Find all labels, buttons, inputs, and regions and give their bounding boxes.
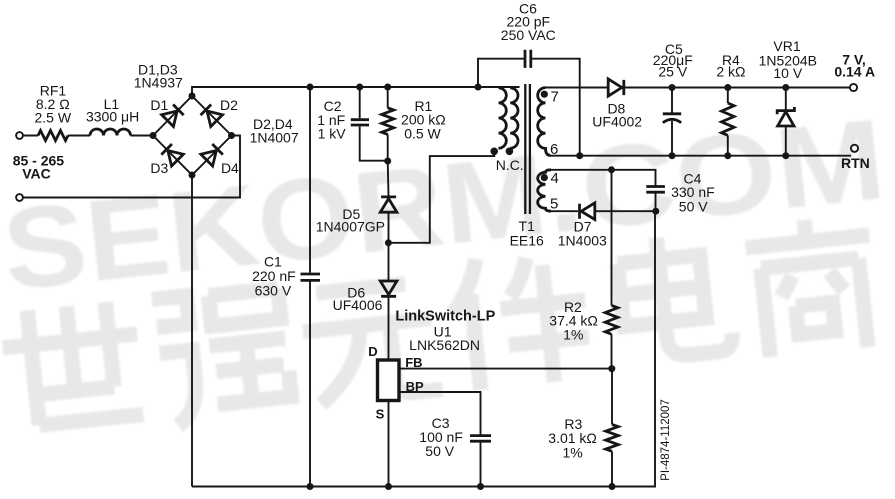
svg-text:1%: 1% bbox=[563, 327, 583, 343]
svg-text:FB: FB bbox=[405, 355, 422, 370]
diode D6 bbox=[380, 281, 397, 296]
pin 4 polarity dot bbox=[541, 174, 548, 181]
wire D6 to U1 drain bbox=[388, 297, 390, 360]
junction R1 top rail bbox=[384, 84, 391, 91]
op-amp U1 LNK562 block bbox=[378, 360, 400, 401]
wire line input bottom bbox=[23, 136, 240, 198]
svg-text:6: 6 bbox=[550, 141, 558, 158]
svg-text:3300 μH: 3300 μH bbox=[86, 108, 139, 124]
wire U1 BP bbox=[399, 392, 481, 435]
svg-text:7: 7 bbox=[551, 89, 559, 106]
node bridge right bbox=[228, 132, 235, 139]
resistor R1 bbox=[387, 87, 389, 161]
svg-text:1N4007GP: 1N4007GP bbox=[316, 219, 385, 235]
wire D5D6 node down bbox=[388, 243, 390, 280]
junction C2 top rail bbox=[356, 84, 363, 91]
capacitor C4 bbox=[646, 187, 665, 193]
svg-text:LinkSwitch-LP: LinkSwitch-LP bbox=[395, 308, 495, 324]
junction VR1 top bbox=[782, 84, 789, 91]
junction R1 C2 D5 bbox=[384, 158, 391, 165]
wire U1 source bbox=[388, 401, 390, 487]
svg-text:5: 5 bbox=[550, 196, 558, 213]
wire bottom rail bbox=[192, 211, 655, 487]
transformer primary terminal dot bbox=[490, 148, 498, 156]
resistor R4 bbox=[727, 88, 729, 156]
junction D5 D6 primary bbox=[385, 239, 392, 246]
transformer core bbox=[525, 84, 530, 214]
junction R4 bottom bbox=[724, 152, 731, 159]
wire FB node to R3 bbox=[611, 369, 613, 425]
svg-text:4: 4 bbox=[551, 170, 559, 187]
svg-text:1N4003: 1N4003 bbox=[558, 233, 607, 249]
wire clamp return to primary bbox=[388, 151, 494, 243]
wire left vertical down bbox=[191, 175, 193, 487]
junction C1 bottom rail bbox=[307, 483, 314, 490]
svg-text:50 V: 50 V bbox=[679, 198, 708, 214]
resistor R2 bbox=[605, 305, 618, 334]
svg-text:LNK562DN: LNK562DN bbox=[409, 337, 480, 353]
svg-text:1N4007: 1N4007 bbox=[250, 130, 299, 146]
svg-text:250 VAC: 250 VAC bbox=[501, 27, 556, 43]
junction R3 bottom rail bbox=[609, 483, 616, 490]
wire R3 to bottom rail bbox=[611, 451, 613, 486]
diode D4 bbox=[201, 143, 224, 166]
junction C3 bottom rail bbox=[477, 483, 484, 490]
transformer T1 secondary winding 7-6 bbox=[538, 88, 551, 156]
svg-text:D2: D2 bbox=[220, 97, 238, 113]
svg-text:D: D bbox=[368, 344, 377, 359]
input terminal top bbox=[16, 132, 23, 139]
junction U1 source rail bbox=[385, 483, 392, 490]
node FB bbox=[608, 365, 615, 372]
svg-text:630 V: 630 V bbox=[255, 282, 292, 298]
svg-text:1N4937: 1N4937 bbox=[134, 75, 183, 91]
wire U1 FB bbox=[399, 368, 612, 370]
wire pin7 to D8 bbox=[546, 87, 609, 89]
junction R4 top bbox=[724, 84, 731, 91]
svg-text:BP: BP bbox=[406, 379, 424, 394]
svg-text:S: S bbox=[376, 406, 385, 421]
wire pin5 to D7 bbox=[549, 210, 578, 212]
wire pin6 output return rail bbox=[551, 155, 852, 157]
wire R2 to FB node bbox=[611, 334, 613, 368]
wire D5 to node bbox=[388, 213, 390, 243]
svg-text:EE16: EE16 bbox=[510, 232, 544, 248]
diode D3 bbox=[161, 143, 184, 166]
svg-text:PI-4874-112007: PI-4874-112007 bbox=[660, 399, 672, 481]
svg-text:50 V: 50 V bbox=[425, 443, 454, 459]
svg-text:2.5 W: 2.5 W bbox=[35, 109, 72, 125]
svg-text:UF4002: UF4002 bbox=[592, 114, 642, 130]
wire bridge sides bbox=[153, 96, 232, 175]
svg-text:RTN: RTN bbox=[841, 155, 870, 171]
pin 7 polarity dot bbox=[541, 91, 548, 98]
resistor RF1 bbox=[38, 131, 68, 141]
capacitor C6 bbox=[478, 59, 580, 156]
svg-text:N.C.: N.C. bbox=[496, 157, 524, 173]
capacitor C1 bbox=[309, 87, 311, 487]
svg-text:25 V: 25 V bbox=[658, 64, 687, 80]
output terminal 7V bbox=[850, 84, 857, 91]
wire pin4 node to R2 bbox=[611, 170, 613, 306]
svg-text:UF4006: UF4006 bbox=[333, 297, 383, 313]
transformer T1 primary winding bbox=[499, 88, 507, 148]
capacitor C5 bbox=[671, 88, 673, 156]
node pin5 C4 bbox=[652, 208, 659, 215]
svg-text:10 V: 10 V bbox=[773, 65, 802, 81]
wire line input top bbox=[23, 135, 153, 137]
diode D1 bbox=[162, 104, 185, 127]
node bridge top bbox=[189, 93, 196, 100]
svg-text:1 kV: 1 kV bbox=[318, 126, 347, 142]
transformer T1 bias winding 4-5 bbox=[538, 170, 551, 211]
junction C1 top rail bbox=[307, 84, 314, 91]
wire D7 to C4 node bbox=[596, 210, 656, 212]
svg-text:2 kΩ: 2 kΩ bbox=[716, 64, 745, 80]
wire pin4 to C4 bbox=[548, 170, 656, 211]
svg-text:D3: D3 bbox=[150, 160, 168, 176]
node C6 secondary bbox=[576, 152, 583, 159]
diode D7 bbox=[580, 203, 595, 220]
zener VR1 bbox=[785, 88, 787, 156]
inductor L1 bbox=[90, 129, 131, 135]
WATERMARK bbox=[0, 0, 1, 1]
svg-text:1%: 1% bbox=[562, 444, 582, 460]
node bridge left bbox=[150, 132, 157, 139]
wire top rail bbox=[192, 87, 520, 96]
svg-text:VAC: VAC bbox=[22, 166, 51, 182]
resistor R3 bbox=[606, 424, 619, 451]
capacitor C2 bbox=[360, 87, 388, 161]
output terminal RTN bbox=[851, 145, 858, 152]
transformer primary N.C. terminal dot bbox=[506, 148, 514, 156]
node bridge bottom bbox=[189, 172, 196, 179]
diode D8 bbox=[608, 79, 624, 96]
capacitor C3 bbox=[470, 436, 491, 442]
svg-text:0.14 A: 0.14 A bbox=[834, 64, 875, 80]
svg-text:0.5 W: 0.5 W bbox=[404, 126, 441, 142]
diode D5 bbox=[380, 197, 397, 212]
input terminal bottom bbox=[16, 194, 23, 201]
wire D8 to output bbox=[624, 87, 850, 89]
junction C5 bottom bbox=[669, 152, 676, 159]
junction VR1 bottom bbox=[782, 152, 789, 159]
svg-text:D1: D1 bbox=[150, 97, 168, 113]
node pin4 tap bbox=[608, 166, 615, 173]
svg-text:C1: C1 bbox=[264, 253, 282, 269]
junction C5 top bbox=[669, 84, 676, 91]
diode D2 bbox=[200, 104, 223, 127]
wire R1 to D5 bbox=[387, 161, 390, 196]
svg-text:D4: D4 bbox=[221, 160, 239, 176]
junction C6 top rail bbox=[475, 84, 482, 91]
char shi bbox=[0, 299, 146, 428]
